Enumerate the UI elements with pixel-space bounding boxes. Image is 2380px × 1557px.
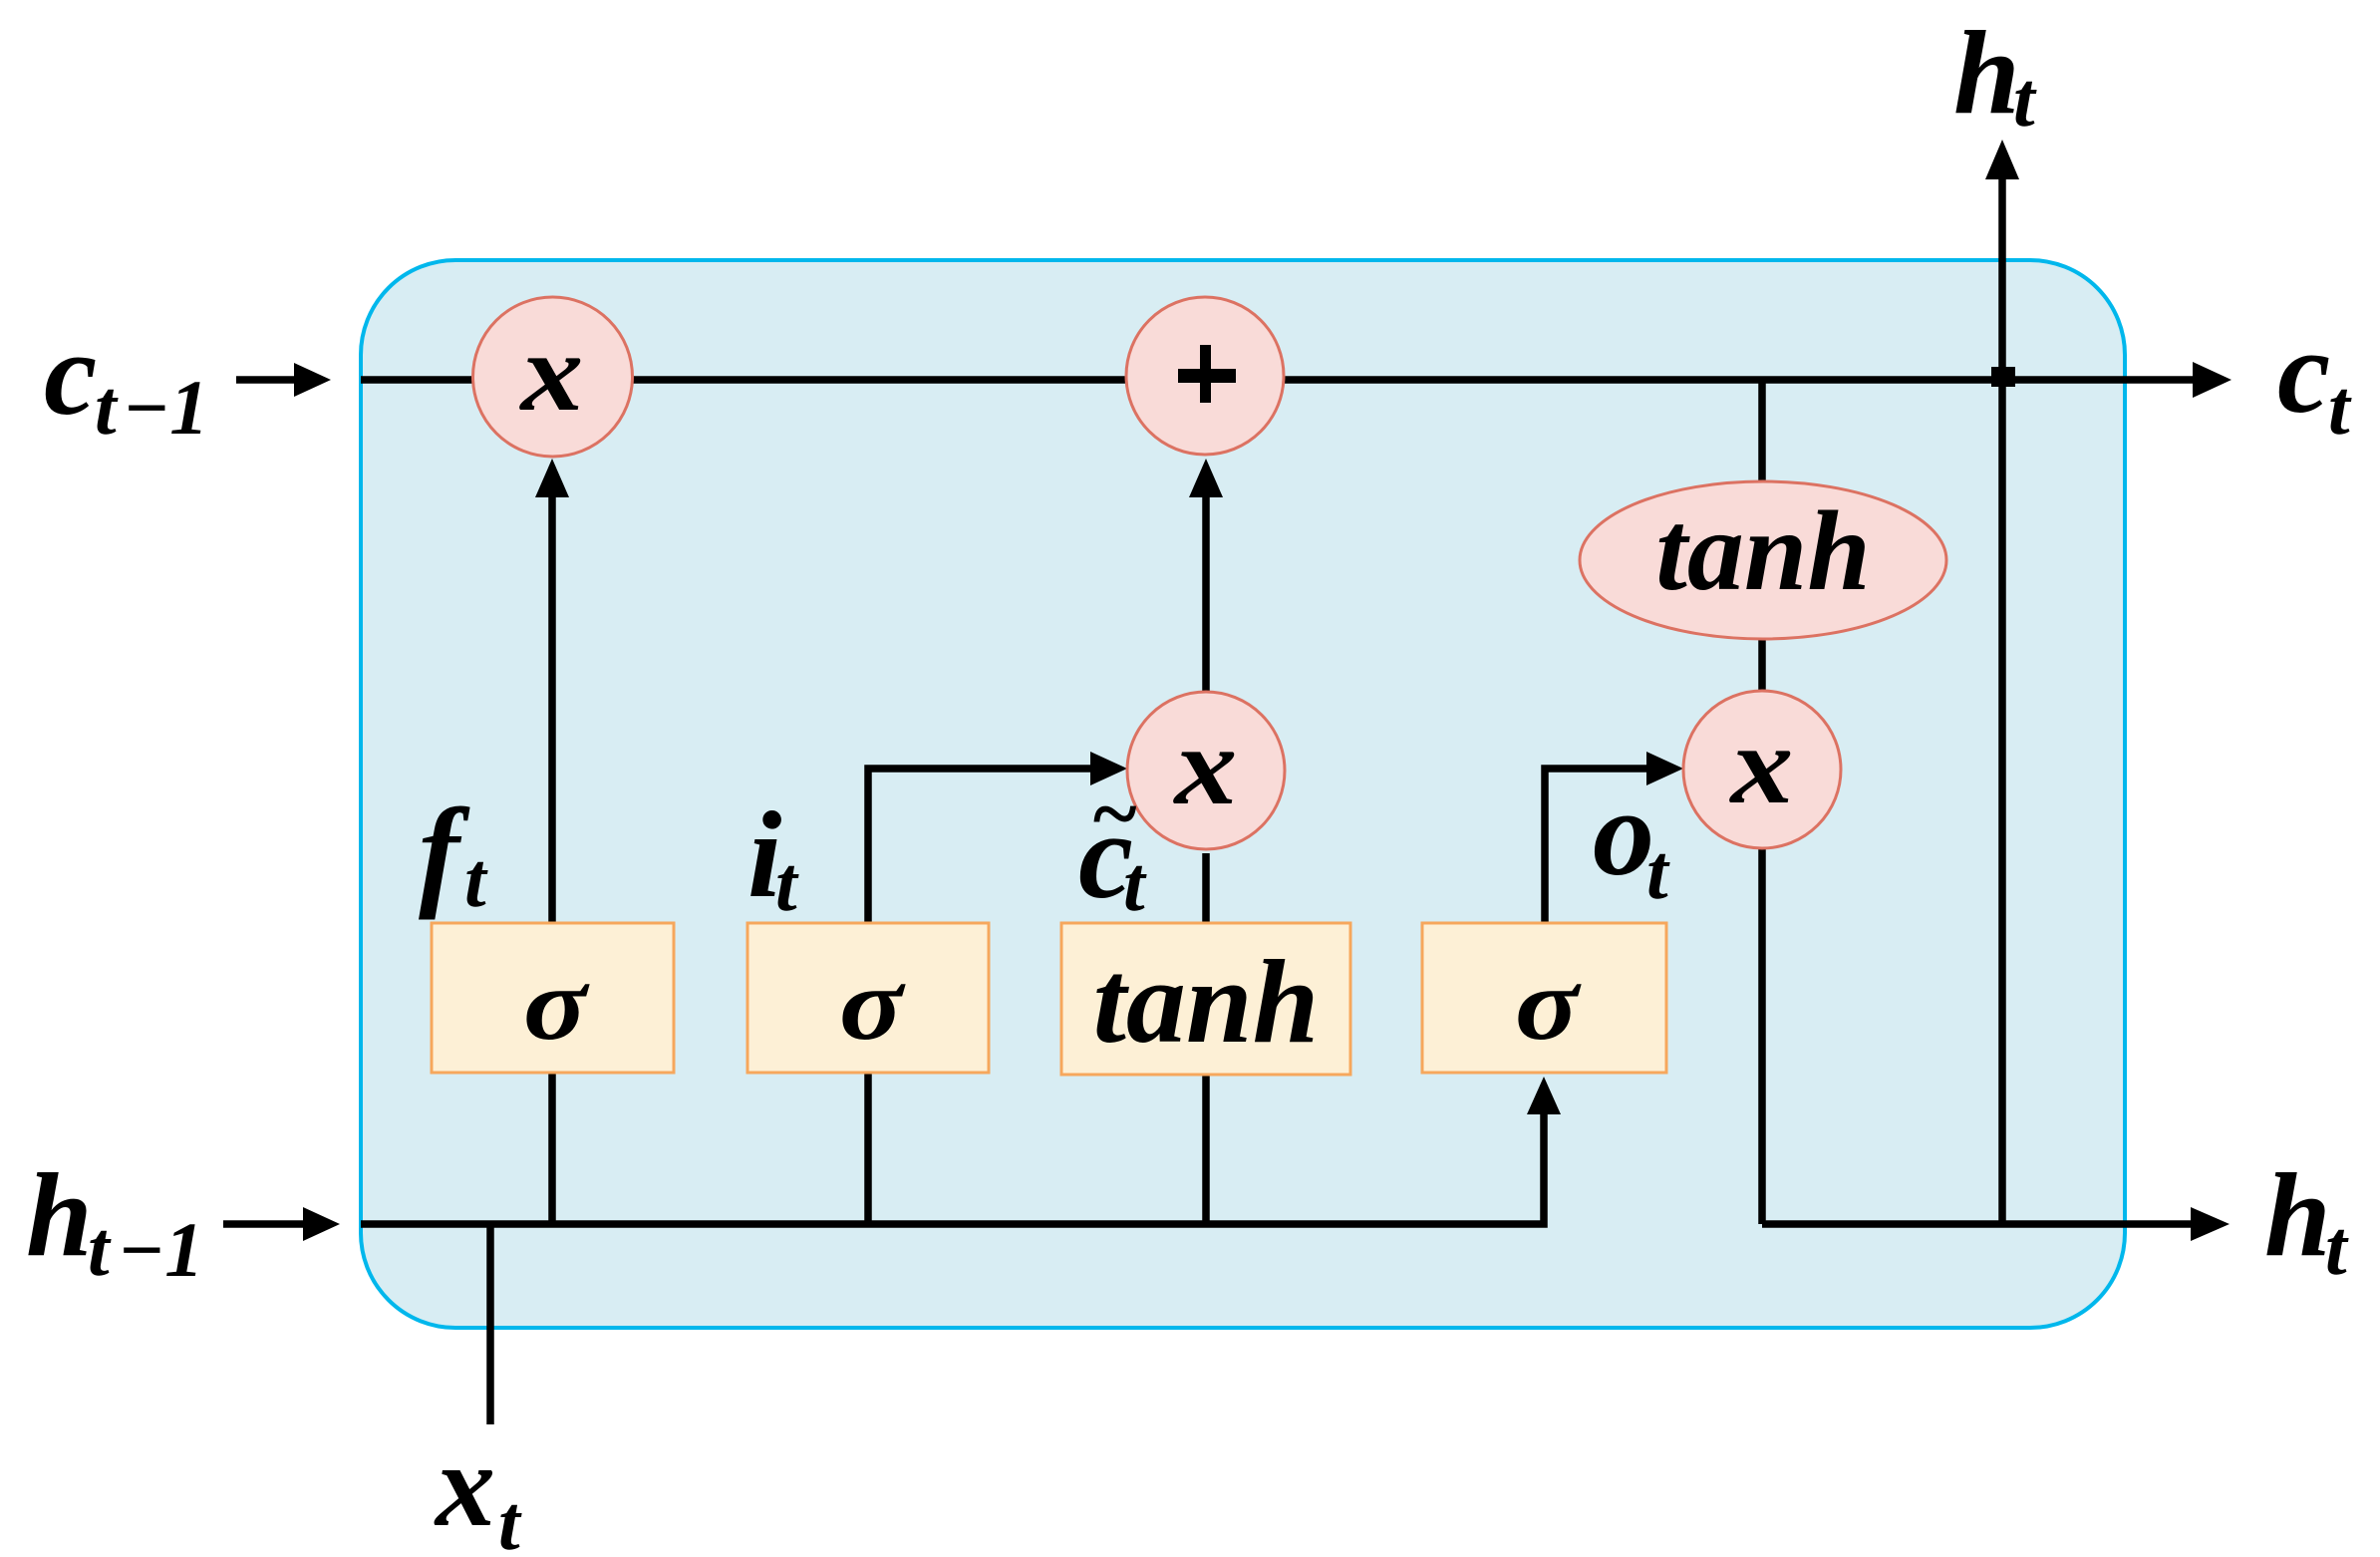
svg-text:x: x (1729, 703, 1794, 826)
svg-text:t: t (464, 836, 488, 923)
svg-text:t: t (2328, 364, 2352, 451)
wire input-gate stem i with elbow into multiply node X2 (868, 752, 1127, 1224)
label h_t top (1953, 6, 2037, 143)
svg-text:h: h (26, 1148, 93, 1281)
svg-text:t: t (1123, 840, 1147, 927)
svg-text:t: t (775, 840, 799, 927)
label c~_t (1078, 768, 1147, 927)
add node (1126, 297, 1284, 455)
svg-text:−1: −1 (118, 1206, 203, 1293)
svg-text:t: t (95, 364, 119, 451)
svg-text:c: c (44, 307, 97, 440)
wire h_t vertical output to top (1985, 140, 2019, 1224)
multiply node X1 (forget) (473, 297, 633, 457)
sigma gate box 1 (forget) (432, 923, 674, 1073)
label f_t (419, 783, 488, 923)
sigma gate box 2 (input) (747, 923, 989, 1073)
wire h_{t-1} input arrow (223, 1207, 340, 1241)
svg-text:x: x (519, 310, 584, 434)
svg-text:−1: −1 (123, 364, 208, 451)
label c_{t-1} (44, 307, 208, 451)
label i_t (747, 786, 799, 927)
wire hidden-state bottom line right segment to h_t output (1762, 1207, 2230, 1241)
svg-text:o: o (1593, 765, 1654, 901)
label h_{t-1} (26, 1148, 203, 1293)
wire c_{t-1} input arrow (236, 363, 331, 397)
svg-text:t: t (2013, 56, 2037, 143)
wire candidate-gate stem c~ (1202, 853, 1210, 1224)
svg-text:x: x (434, 1418, 495, 1551)
wire cell-state line c (361, 362, 2231, 398)
svg-text:σ: σ (1515, 948, 1582, 1063)
junction node on cell line at h_t crossing (1991, 367, 2015, 387)
svg-text:h: h (2264, 1148, 2331, 1281)
svg-text:σ: σ (523, 948, 590, 1063)
svg-text:x: x (1173, 704, 1238, 827)
svg-text:h: h (1953, 6, 2020, 139)
svg-text:tanh: tanh (1655, 487, 1870, 614)
wire forget-gate stem f (535, 459, 569, 1224)
svg-text:t: t (88, 1205, 112, 1292)
multiply node X2 (candidate) (1127, 692, 1285, 849)
wire tanh ellipse to multiply node X3 (1758, 633, 1766, 698)
wire x_t input branch (486, 1224, 494, 1424)
multiply node X3 (output) (1683, 691, 1841, 848)
wire multiply X3 down to hidden line (1758, 845, 1766, 1224)
LSTM cell body box (361, 260, 2125, 1328)
wire hidden-state bottom line left segment with elbow up into sigma o gate (361, 1077, 1561, 1224)
wire multiply X2 up to add node (1189, 459, 1223, 696)
sigma gate box 4 (output) (1422, 923, 1666, 1073)
svg-text:t: t (1646, 828, 1670, 915)
svg-text:t: t (2325, 1204, 2349, 1291)
tanh gate box 3 (candidate) (1061, 923, 1350, 1075)
svg-text:σ: σ (839, 948, 906, 1063)
label x_t (434, 1418, 522, 1557)
label c_t (2277, 305, 2352, 451)
wire output-gate stem o with elbow into multiply node X3 (1545, 752, 1683, 923)
svg-text:c: c (2277, 305, 2330, 438)
svg-text:tanh: tanh (1093, 935, 1320, 1068)
wire cell-state branch down to tanh ellipse (1758, 380, 1766, 488)
tanh ellipse (1580, 481, 1946, 639)
svg-text:t: t (498, 1479, 522, 1557)
label o_t (1593, 765, 1670, 915)
label h_t right (2264, 1148, 2349, 1291)
